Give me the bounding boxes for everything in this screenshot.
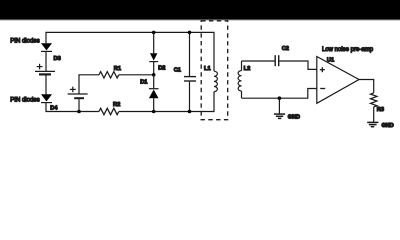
junction D2 top (152, 31, 156, 35)
svg-text:GND: GND (382, 123, 394, 129)
wire (153, 75, 155, 89)
wire L2 top to C2 (242, 60, 276, 62)
svg-text:C2: C2 (282, 46, 289, 52)
svg-text:D2: D2 (158, 66, 165, 72)
wire (153, 98, 155, 111)
svg-text:Low noise pre-amp: Low noise pre-amp (322, 47, 374, 53)
label B1 plus (37, 64, 43, 70)
svg-text:R2: R2 (113, 102, 120, 108)
wire battery B2 to bottom bus (78, 99, 80, 111)
svg-text:GND: GND (288, 114, 300, 120)
wire R1 feed (79, 75, 99, 94)
wire (45, 76, 47, 95)
battery B2 (68, 94, 88, 98)
label B2 plus (70, 87, 76, 93)
svg-text:L2: L2 (244, 66, 251, 72)
resistor R1 (99, 72, 119, 78)
op-amp plus sign (320, 67, 325, 72)
junction D1 bottom (152, 110, 156, 114)
junction C1 bottom (188, 110, 192, 114)
svg-text:PIN diodes: PIN diodes (10, 98, 39, 104)
svg-text:U1: U1 (327, 58, 334, 64)
svg-text:D4: D4 (50, 106, 58, 112)
junction D branch mid (152, 73, 156, 77)
junction (77, 110, 81, 114)
capacitor C2 (275, 55, 279, 66)
wire bottom bus left (46, 104, 99, 112)
PIN diode D4 (41, 94, 52, 104)
svg-text:R3: R3 (377, 107, 384, 113)
capacitor C1 (184, 77, 196, 81)
ground G1 (274, 98, 285, 118)
svg-text:C1: C1 (174, 67, 181, 73)
svg-text:L1: L1 (204, 66, 211, 72)
PIN diode D1 (149, 89, 159, 99)
resistor R3 (371, 93, 377, 107)
wire (153, 32, 155, 53)
wire top bus (46, 32, 214, 71)
svg-text:D3: D3 (54, 56, 61, 62)
inductor L1 (214, 71, 217, 91)
junction C1 top (188, 31, 192, 35)
dashed box (201, 21, 228, 120)
wire C2 to op-amp plus input (279, 61, 317, 69)
inductor L2 (238, 61, 241, 98)
wire bottom bus right (119, 92, 214, 112)
top black bar (0, 0, 400, 19)
svg-text:PIN diodes: PIN diodes (10, 39, 39, 45)
op-amp U1 (317, 57, 359, 104)
PIN diode D2 (149, 53, 158, 61)
wire op-amp output (359, 80, 374, 93)
svg-text:D1: D1 (140, 80, 147, 86)
ground G2 (367, 122, 378, 126)
PIN diode D3 (41, 43, 52, 71)
op-amp minus sign (320, 88, 325, 90)
wire (153, 62, 155, 75)
wire (189, 32, 191, 76)
wire R1 to junction (119, 74, 154, 76)
resistor R2 (99, 108, 119, 114)
battery B1 (35, 71, 55, 74)
junction ground tap (278, 96, 282, 100)
wire R3 to ground (373, 107, 375, 122)
wire L2 bottom to op-amp minus input (242, 89, 317, 99)
wire (189, 82, 191, 112)
svg-text:R1: R1 (114, 66, 121, 72)
